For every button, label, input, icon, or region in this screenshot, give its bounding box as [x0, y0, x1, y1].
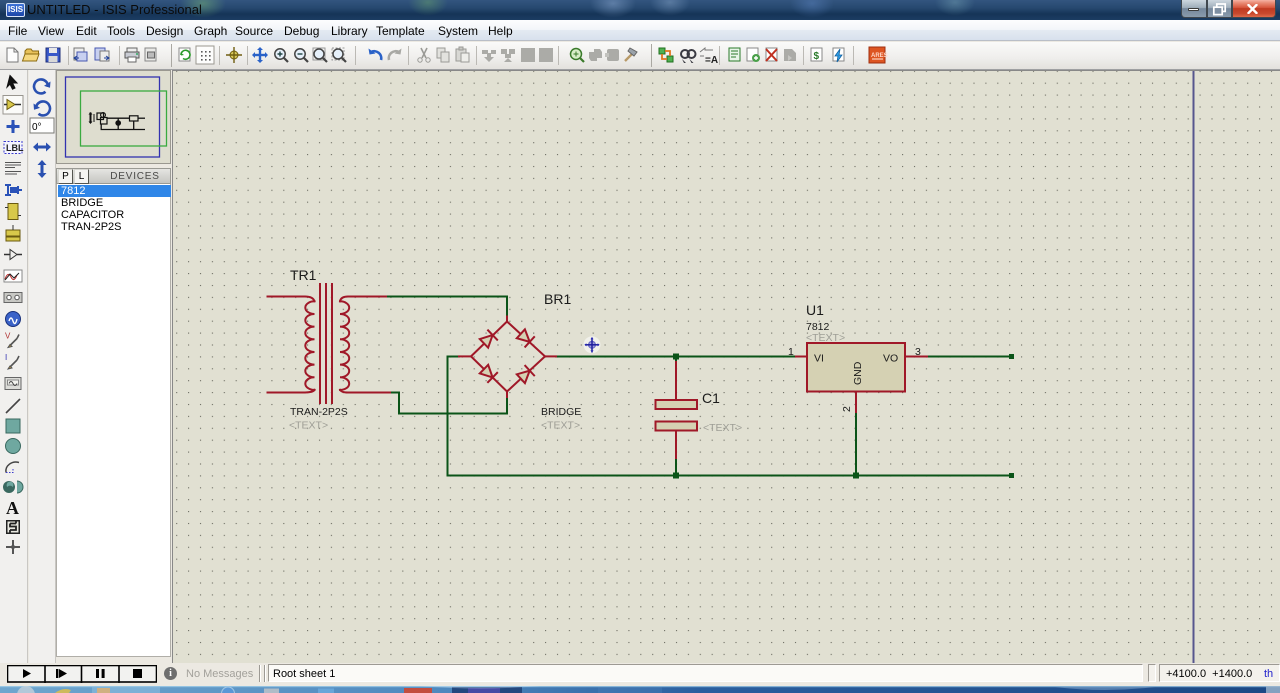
origin [226, 47, 242, 63]
device pins mode [4, 250, 22, 260]
wire: bridge left to ground rail [448, 357, 460, 476]
svg-text:<TEXT>: <TEXT> [541, 420, 580, 432]
svg-text:VI: VI [814, 353, 824, 365]
pin name VI [814, 353, 824, 365]
svg-text:<TEXT>: <TEXT> [703, 422, 742, 434]
print [125, 48, 139, 62]
svg-text:0°: 0° [32, 122, 42, 133]
svg-text:BR1: BR1 [544, 291, 571, 307]
mirror vertical [38, 160, 47, 178]
open [23, 49, 40, 61]
cursor crosshair [584, 336, 601, 353]
zoom in [275, 49, 288, 62]
diode D2 (top-right arm, pointing to right node) [516, 328, 535, 347]
svg-text:V: V [5, 332, 11, 341]
label C1 [702, 390, 720, 406]
diode D4 (bottom-right arm, pointing to right node) [516, 365, 535, 384]
2D circle mode [6, 439, 21, 454]
rotate clockwise [34, 79, 50, 93]
pin name GND [852, 361, 864, 385]
svg-text:$: $ [814, 51, 820, 62]
tape recorder mode [4, 293, 22, 303]
pin name VO [883, 353, 898, 365]
pin number 1 [788, 346, 794, 358]
svg-text:A: A [6, 498, 19, 518]
wire: transformer secondary top to bridge top [386, 297, 507, 317]
terminals mode [6, 225, 20, 241]
cut (disabled) [418, 48, 430, 62]
svg-text:2: 2 [841, 406, 853, 412]
property assignment [700, 48, 718, 66]
simulation buttons [7, 665, 157, 683]
value label BRIDGE [541, 406, 581, 418]
text script mode [5, 163, 21, 175]
rotate anticlockwise [34, 101, 50, 115]
electrical check [833, 48, 844, 62]
capacitor C1 [656, 361, 698, 459]
buses mode [5, 185, 22, 195]
node: ground rail end [1009, 473, 1014, 478]
new [7, 48, 18, 62]
export [95, 48, 109, 61]
regulator U1 7812 [795, 343, 928, 413]
2D arc mode [6, 462, 19, 472]
copy (disabled) [437, 48, 449, 62]
2D closed path mode [3, 481, 23, 493]
pick parts [571, 49, 585, 63]
block move [501, 49, 515, 62]
wire: bottom ground rail [448, 475, 1012, 477]
mirror horizontal [33, 143, 51, 152]
undo [369, 49, 382, 61]
component mode (selected) [3, 96, 23, 115]
property label TEXT of TR1 [289, 420, 328, 432]
diode D1 (left-top arm, pointing to top node) [479, 330, 498, 349]
info [164, 667, 177, 680]
svg-text:<TEXT>: <TEXT> [289, 420, 328, 432]
block delete [539, 48, 553, 62]
goto sheet (disabled) [784, 49, 796, 61]
wire autorouter [659, 48, 673, 62]
virtual instruments mode [5, 378, 21, 390]
bill of materials [811, 48, 822, 62]
bridge rectifier BR1 [459, 317, 556, 398]
voltage probe mode [5, 332, 19, 348]
label U1 [806, 302, 824, 318]
diode D3 (left-bottom arm, pointing to bottom node) [479, 364, 498, 383]
wire: U1 GND pin to ground rail [855, 413, 857, 476]
svg-text:C1: C1 [702, 390, 720, 406]
graph mode [4, 270, 22, 282]
sheet border [1193, 71, 1195, 663]
paste (disabled) [456, 47, 469, 62]
pan [252, 47, 268, 63]
zoom area [332, 48, 346, 62]
pin number 2 [841, 406, 853, 412]
netlist to ARES [869, 47, 888, 63]
new sheet [747, 48, 760, 62]
zoom out [295, 49, 308, 62]
wire: transformer secondary bottom to bridge bottom [390, 393, 507, 414]
label BR1 [544, 291, 571, 307]
2D symbols mode [6, 520, 20, 534]
grid [196, 46, 214, 64]
subcircuit mode [5, 204, 21, 220]
junction at U1 GND / ground rail [853, 473, 859, 479]
remove sheet [766, 48, 777, 61]
svg-text:LBL: LBL [6, 143, 24, 153]
2D line mode [6, 399, 20, 413]
svg-text:U1: U1 [806, 302, 824, 318]
label TR1 [290, 267, 317, 283]
svg-text:VO: VO [883, 353, 898, 365]
block copy [482, 50, 496, 62]
selection tool [7, 76, 17, 90]
2D markers mode [6, 540, 20, 554]
svg-text:TRAN-2P2S: TRAN-2P2S [290, 406, 348, 418]
angle field [30, 118, 54, 133]
property label TEXT of C1 [703, 422, 742, 434]
pin number 3 [915, 346, 921, 358]
svg-text:BRIDGE: BRIDGE [541, 406, 581, 418]
value label 7812 [806, 321, 830, 333]
2D box mode [6, 419, 20, 433]
node: output terminal end [1009, 354, 1014, 359]
design explorer [729, 48, 740, 61]
svg-text:GND: GND [852, 361, 864, 385]
wire: C1 bottom pin to ground rail [675, 459, 677, 476]
svg-text:=A: =A [705, 55, 718, 66]
junction at C1 bottom / ground rail [673, 473, 679, 479]
property label TEXT of BR1 [541, 420, 580, 432]
transformer TR1 [268, 284, 391, 403]
junction at C1 top node [673, 354, 679, 360]
current probe mode [5, 353, 19, 369]
redo [389, 49, 402, 61]
wire: bridge right output to U1 pin 1, through C1 junction [556, 356, 795, 358]
2D text mode [6, 498, 19, 518]
wire: U1 pin 3 to output terminal [928, 356, 1011, 358]
svg-text:3: 3 [915, 346, 921, 358]
property label TEXT of U1 [806, 332, 845, 344]
decompose (hammer) [625, 48, 637, 61]
make device (disabled) [589, 49, 602, 61]
zoom all [313, 48, 327, 62]
wire: C1 top pin connection [675, 357, 677, 362]
junction dot mode [7, 120, 20, 133]
search [681, 50, 696, 63]
svg-text:TR1: TR1 [290, 267, 317, 283]
value label TRAN-2P2S [290, 406, 348, 418]
mark area [145, 48, 156, 61]
redraw [179, 48, 190, 61]
packaging (disabled) [605, 49, 619, 61]
save [46, 48, 60, 62]
svg-text:1: 1 [788, 346, 794, 358]
block rotate [521, 48, 535, 62]
import [74, 48, 87, 61]
svg-text:I: I [5, 353, 7, 362]
svg-text:<TEXT>: <TEXT> [806, 332, 845, 344]
generator mode [6, 312, 21, 327]
wire label mode [4, 142, 24, 154]
